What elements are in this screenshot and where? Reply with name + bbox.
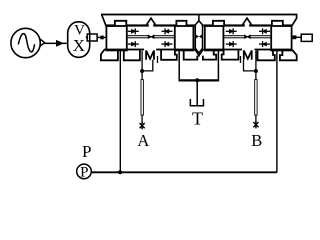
svg-text:T: T (192, 108, 203, 128)
svg-text:A: A (137, 131, 149, 150)
svg-text:P: P (80, 165, 88, 181)
svg-text:B: B (251, 131, 262, 150)
svg-text:P: P (82, 142, 91, 161)
svg-text:X: X (73, 36, 85, 55)
